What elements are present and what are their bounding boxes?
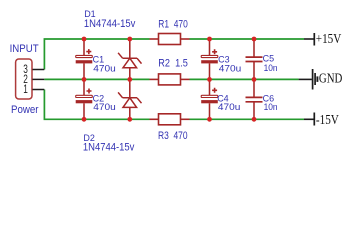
svg-text:1N4744-15v: 1N4744-15v — [83, 141, 135, 153]
+15V terminal — [304, 33, 314, 46]
junction middle rail at D1/D2 — [127, 77, 132, 82]
connector J1 INPUT/Power — [16, 59, 45, 99]
resistor R1 — [150, 34, 190, 45]
zener diode D1 — [118, 39, 141, 79]
svg-text:470u: 470u — [219, 63, 242, 74]
wire top rail left segment — [44, 39, 149, 70]
junction middle rail at C1/C2 — [82, 77, 87, 82]
wire middle rail right segment — [190, 78, 299, 80]
svg-text:Power: Power — [11, 104, 39, 116]
junction top rail at C3 — [207, 37, 212, 42]
svg-text:GND: GND — [319, 71, 343, 86]
svg-text:-15V: -15V — [316, 112, 339, 127]
svg-text:470u: 470u — [218, 102, 241, 113]
capacitor C3 — [201, 39, 218, 79]
resistor R2 — [150, 74, 190, 85]
resistor R3 — [150, 114, 190, 125]
junction bottom rail at D2 — [127, 117, 132, 122]
capacitor C5 — [246, 39, 263, 79]
capacitor C4 — [201, 79, 218, 119]
svg-text:10n: 10n — [264, 63, 278, 74]
junction top rail at C5 — [252, 37, 257, 42]
capacitor C6 — [246, 79, 263, 119]
svg-text:R2 1.5: R2 1.5 — [158, 57, 188, 69]
capacitor C1 — [76, 39, 93, 79]
junction middle rail at C5/C6 — [252, 77, 257, 82]
ground GND — [299, 69, 318, 90]
svg-text:1N4744-15v: 1N4744-15v — [84, 18, 136, 30]
junction top rail at D1 — [127, 37, 132, 42]
zener diode D2 — [118, 79, 141, 119]
svg-text:INPUT: INPUT — [10, 43, 39, 55]
wire top rail right segment — [190, 38, 305, 40]
-15V terminal — [304, 113, 314, 126]
junction bottom rail at C4 — [207, 117, 212, 122]
svg-text:+15V: +15V — [316, 31, 342, 46]
svg-text:1: 1 — [23, 84, 28, 96]
capacitor C2 — [76, 79, 93, 119]
svg-text:470u: 470u — [93, 102, 116, 113]
junction top rail at C1 — [82, 37, 87, 42]
svg-text:R3 470: R3 470 — [158, 130, 188, 142]
junction bottom rail at C2 — [82, 117, 87, 122]
svg-text:10n: 10n — [264, 102, 278, 113]
svg-text:R1 470: R1 470 — [158, 19, 188, 31]
svg-text:470u: 470u — [93, 63, 116, 74]
wire middle rail left segment — [44, 78, 149, 80]
wire bottom rail right segment — [190, 118, 305, 120]
junction middle rail at C3/C4 — [207, 77, 212, 82]
junction bottom rail at C6 — [252, 117, 257, 122]
wire bottom rail left segment — [44, 90, 149, 120]
